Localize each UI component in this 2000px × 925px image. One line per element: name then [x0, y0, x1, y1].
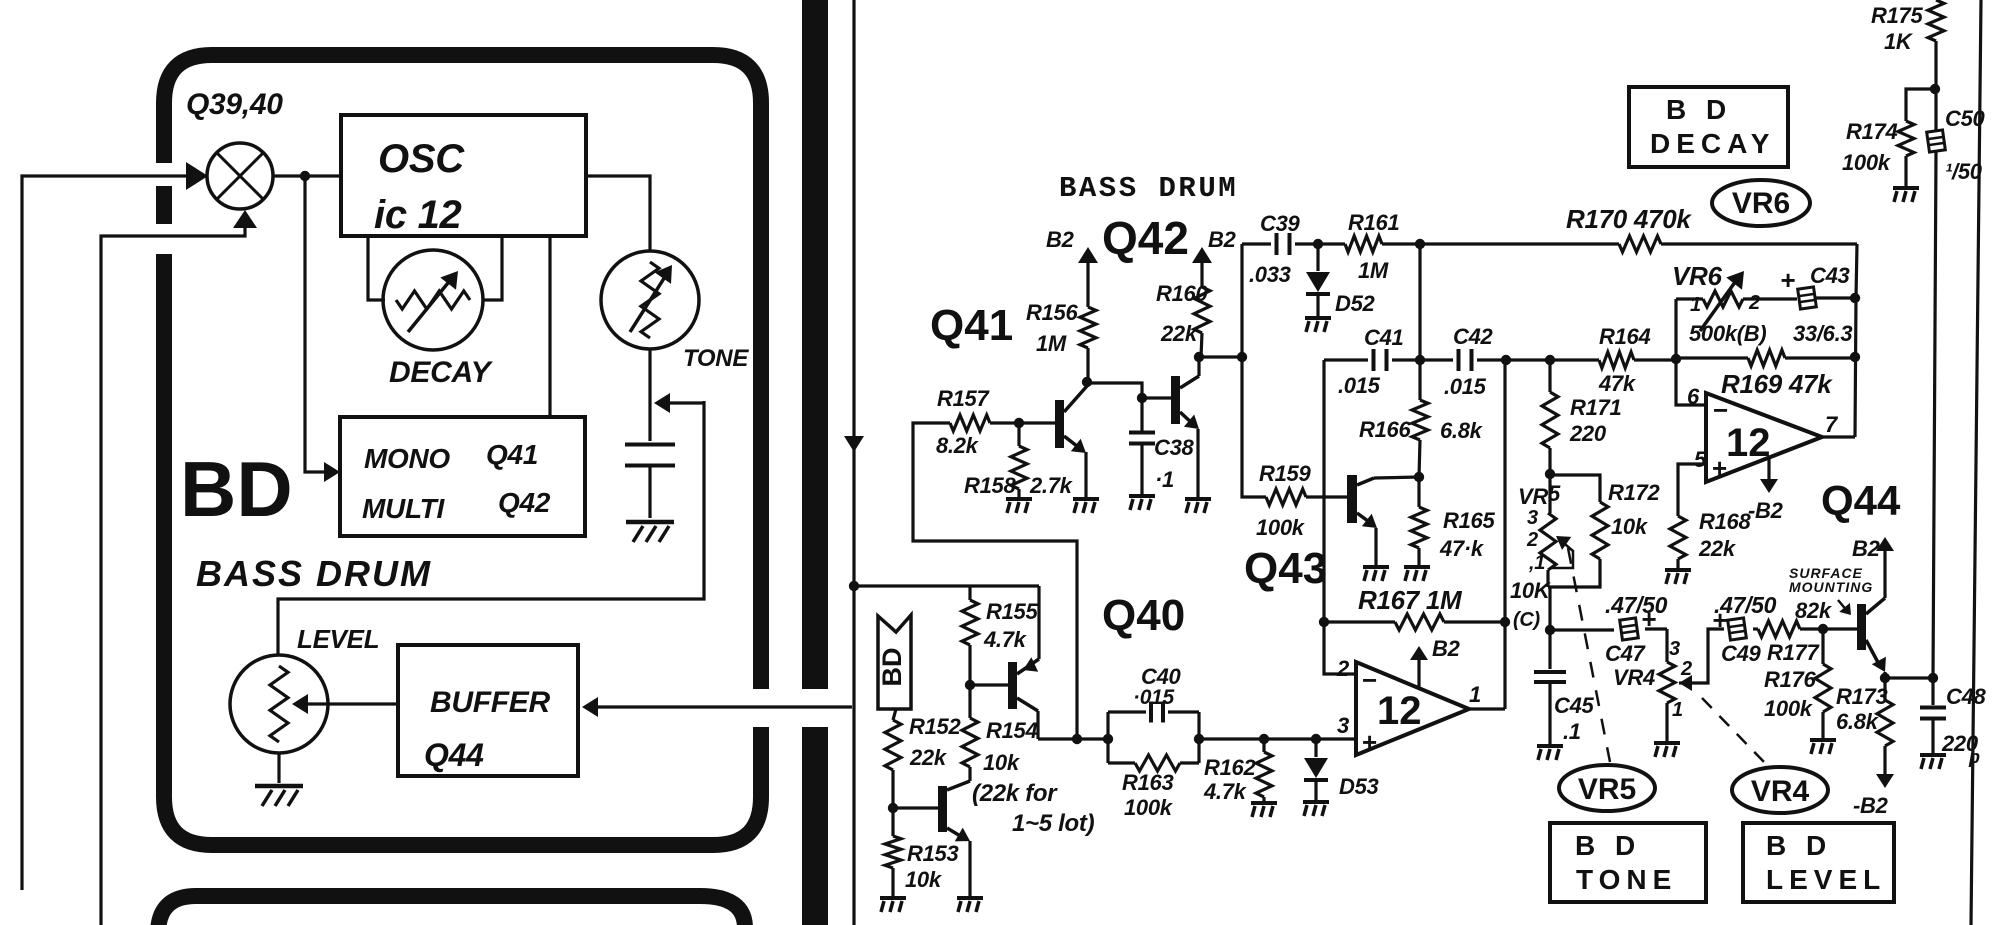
resistor R169 47k	[1676, 356, 1748, 359]
svg-text:C48: C48	[1946, 684, 1987, 709]
wire TONE bottom node	[648, 349, 651, 401]
svg-text:12: 12	[1377, 689, 1422, 733]
wire page right rail	[1971, 0, 1981, 925]
svg-text:TONE: TONE	[683, 345, 749, 372]
transistor Q44 (surface mounting)	[1857, 604, 1866, 650]
svg-text:C41: C41	[1364, 325, 1404, 350]
svg-text:R173: R173	[1836, 684, 1887, 709]
wire mixer to OSC	[273, 174, 341, 177]
wire emitter to C48	[1885, 676, 1933, 679]
svg-text:33/6.3: 33/6.3	[1793, 321, 1852, 346]
svg-text:.47/50: .47/50	[1605, 592, 1668, 618]
svg-text:B2: B2	[1432, 636, 1461, 661]
svg-text:1K: 1K	[1884, 29, 1914, 54]
wire buffer output	[586, 705, 852, 708]
capacitor C48 220p	[1931, 678, 1934, 705]
svg-text:100k: 100k	[1764, 696, 1814, 721]
wire y739 rail (Q40 out to op-amp +)	[1038, 737, 1108, 740]
svg-text:C49: C49	[1721, 641, 1762, 666]
svg-text:·1: ·1	[1155, 467, 1174, 492]
node rail/R166 column	[1415, 239, 1425, 249]
supply B2 op-amp 1	[1417, 650, 1420, 688]
svg-text:4.7k: 4.7k	[1203, 779, 1248, 804]
svg-text:R155: R155	[986, 599, 1038, 624]
svg-text:MULTI: MULTI	[362, 493, 445, 524]
leader dash VR5	[1568, 548, 1610, 762]
svg-text:Q39,40: Q39,40	[186, 88, 283, 121]
wire Q42 collector to C39 rail	[1199, 355, 1242, 358]
node R167 right	[1500, 617, 1510, 627]
svg-text:Q42: Q42	[498, 487, 551, 518]
svg-text:VR4: VR4	[1751, 775, 1810, 808]
svg-text:VR5: VR5	[1578, 773, 1636, 806]
svg-text:2: 2	[1748, 292, 1760, 314]
svg-text:1M: 1M	[1036, 331, 1067, 356]
capacitor C47 .47/50	[1620, 618, 1639, 640]
wire Q43 base / R159	[1242, 357, 1266, 497]
potentiometer VR6 500k(B)	[1674, 299, 1677, 359]
svg-text:.015: .015	[1444, 374, 1487, 399]
resistor R161 1M	[1345, 236, 1382, 252]
svg-text:Q43: Q43	[1244, 544, 1327, 593]
supply -B2 op-amp2	[1767, 458, 1770, 486]
ground under R153	[880, 896, 906, 900]
svg-text:R171: R171	[1570, 395, 1621, 420]
label box BD DECAY	[1629, 87, 1788, 167]
wire feedback column down	[1855, 244, 1857, 437]
leader dash VR4	[1702, 698, 1764, 762]
node op-amp2 feedback	[1850, 352, 1860, 362]
svg-text:B D: B D	[1666, 94, 1732, 125]
svg-text:1M: 1M	[1358, 258, 1389, 283]
resistor R156 1M	[1086, 250, 1089, 307]
svg-text:3: 3	[1337, 713, 1349, 738]
svg-text:Q44: Q44	[424, 737, 484, 773]
op-amp 12 (first)	[1356, 662, 1469, 755]
svg-text:‚1: ‚1	[1528, 552, 1545, 574]
svg-text:100k: 100k	[1256, 515, 1306, 540]
svg-text:VR6: VR6	[1672, 261, 1723, 291]
callout VR6	[1712, 180, 1810, 226]
node at OSC input	[300, 171, 310, 181]
svg-text:10k: 10k	[983, 750, 1021, 775]
svg-text:D53: D53	[1339, 774, 1379, 799]
svg-text:Q40: Q40	[1102, 591, 1185, 640]
resistor R165 47k	[1417, 477, 1420, 507]
svg-text:D52: D52	[1335, 291, 1376, 316]
resistor R155 4.7k	[968, 586, 971, 600]
diode D52	[1316, 244, 1319, 271]
svg-text:C42: C42	[1453, 324, 1494, 349]
svg-text:2: 2	[1336, 656, 1350, 681]
wire OSC to TONE pot	[586, 176, 650, 251]
resistor R164 47k	[1599, 352, 1634, 368]
svg-text:-B2: -B2	[1853, 793, 1889, 818]
svg-text:VR4: VR4	[1613, 665, 1655, 690]
node VR5 top	[1545, 469, 1555, 479]
svg-text:R164: R164	[1599, 324, 1650, 349]
svg-text:B D: B D	[1766, 830, 1832, 861]
ground under R162	[1251, 801, 1277, 805]
wire op-amp inverting input	[1324, 622, 1356, 674]
ground under C38	[1129, 494, 1155, 498]
potentiometer DECAY	[383, 250, 483, 350]
svg-text:B2: B2	[1852, 536, 1881, 561]
resistor R160 22k	[1200, 250, 1203, 287]
svg-text:220: 220	[1569, 421, 1607, 446]
wire op-amp2 inputs	[1676, 359, 1706, 405]
node Q44 emitter	[1880, 673, 1890, 683]
svg-text:DECAY: DECAY	[389, 356, 494, 389]
svg-text:BUFFER: BUFFER	[430, 686, 550, 719]
svg-text:1: 1	[1672, 699, 1683, 721]
svg-text:MOUNTING: MOUNTING	[1789, 579, 1873, 595]
wire top rail	[1242, 242, 1271, 245]
wire base Q40a	[970, 683, 1008, 686]
label box BD LEVEL	[1743, 823, 1894, 902]
svg-text:5: 5	[1694, 447, 1707, 472]
net flag BD (trigger input)	[878, 615, 911, 709]
svg-text:1: 1	[1469, 682, 1481, 707]
potentiometer TONE	[601, 251, 699, 349]
supply B2 Q44 collector	[1883, 542, 1886, 598]
svg-text:12: 12	[1726, 421, 1771, 465]
svg-text:DECAY: DECAY	[1650, 128, 1775, 159]
svg-text:6.8k: 6.8k	[1440, 418, 1484, 443]
capacitor C38 .1	[1140, 398, 1143, 431]
svg-text:·015: ·015	[1133, 686, 1174, 709]
transistor Q41	[1055, 400, 1064, 448]
svg-text:4.7k: 4.7k	[983, 627, 1028, 652]
ground under Q41 emitter	[1073, 497, 1099, 501]
ground under VR4	[1654, 741, 1680, 745]
wire op-amp1 output	[1469, 707, 1505, 710]
svg-text:R156: R156	[1026, 300, 1078, 325]
svg-text:MONO: MONO	[364, 443, 450, 474]
svg-text:1: 1	[1690, 294, 1701, 316]
block BUFFER Q44	[398, 645, 578, 776]
svg-text:R152: R152	[909, 714, 961, 739]
svg-text:C45: C45	[1554, 693, 1595, 718]
wire rail to Q40 stage	[854, 584, 1039, 587]
svg-text:VR6: VR6	[1732, 187, 1790, 220]
svg-text:2: 2	[1526, 529, 1538, 551]
svg-text:1~5 lot): 1~5 lot)	[1012, 810, 1095, 837]
ground under D53	[1303, 800, 1329, 804]
svg-text:BD: BD	[180, 445, 293, 533]
parallel block C40/R163	[1106, 712, 1109, 763]
node R155/R154/base	[965, 680, 975, 690]
wire C41/C42 rail	[1324, 358, 1368, 361]
ground under Q40b emitter	[957, 896, 983, 900]
svg-text:Q44: Q44	[1821, 477, 1901, 524]
svg-text:22k: 22k	[1160, 321, 1199, 346]
potentiometer LEVEL	[230, 655, 328, 753]
capacitor C41 .015	[1372, 349, 1376, 371]
svg-text:B D: B D	[1575, 830, 1641, 861]
ground under R174	[1893, 186, 1919, 190]
svg-text:100k: 100k	[1842, 150, 1892, 175]
svg-text:R167 1M: R167 1M	[1358, 585, 1463, 615]
svg-text:TONE: TONE	[1576, 864, 1677, 895]
wire OSC to DECAY pot (left leg)	[368, 236, 385, 300]
wire feedback into TONE node	[278, 401, 704, 655]
resistor R167 1M	[1324, 620, 1395, 623]
wire main input rail	[852, 0, 855, 925]
svg-text:8.2k: 8.2k	[936, 433, 980, 458]
svg-text:Q41: Q41	[930, 301, 1013, 350]
resistor R154 10k	[968, 685, 971, 718]
resistor R162 4.7k	[1259, 734, 1269, 744]
wire node to C47	[1550, 628, 1614, 631]
resistor R176 100k	[1821, 629, 1824, 664]
svg-text:R177: R177	[1767, 640, 1820, 665]
capacitor C45 .1	[1548, 630, 1551, 669]
svg-text:OSC: OSC	[378, 137, 465, 181]
ground under R165	[1404, 565, 1430, 569]
resistor R168 22k	[1670, 516, 1686, 559]
svg-text:B2: B2	[1208, 227, 1237, 252]
wire block to op-amp	[1199, 737, 1356, 740]
label box BD TONE	[1550, 823, 1706, 902]
block OSC IC12	[341, 115, 586, 236]
capacitor C39 .033	[1275, 233, 1279, 255]
callout VR5	[1559, 765, 1655, 811]
svg-text:22k: 22k	[1698, 536, 1737, 561]
svg-text:BASS DRUM: BASS DRUM	[196, 553, 432, 594]
ground under LEVEL	[277, 753, 280, 783]
potentiometer VR5 10K(C)	[1548, 475, 1551, 513]
svg-text:R161: R161	[1348, 210, 1399, 235]
potentiometer VR4	[1665, 629, 1668, 662]
wire OSC to MONO/MULTI	[548, 236, 551, 417]
callout VR4	[1732, 767, 1828, 813]
svg-text:10k: 10k	[1611, 514, 1649, 539]
svg-text:100k: 100k	[1124, 795, 1174, 820]
svg-text:R154: R154	[986, 718, 1037, 743]
svg-text:22k: 22k	[909, 745, 948, 770]
wire node down to MONO/MULTI box	[305, 176, 332, 472]
ground under R158	[1006, 497, 1032, 501]
node BD tone (C)	[1548, 587, 1551, 630]
svg-text:BASS DRUM: BASS DRUM	[1059, 172, 1238, 205]
svg-text:Q42: Q42	[1102, 212, 1189, 264]
bus bar (thick vertical)	[802, 0, 828, 689]
svg-text:C47: C47	[1605, 641, 1647, 666]
svg-text:ic 12: ic 12	[374, 193, 462, 237]
ground under R168	[1665, 568, 1691, 572]
node main rail	[849, 581, 859, 591]
svg-text:R165: R165	[1443, 508, 1495, 533]
ground under Q43 emitter	[1363, 565, 1389, 569]
wire buffer to LEVEL wiper	[304, 702, 398, 705]
svg-text:500k(B): 500k(B)	[1689, 321, 1766, 346]
capacitor C50 1/50	[1927, 130, 1946, 152]
svg-text:R170 470k: R170 470k	[1566, 204, 1692, 234]
diode D53	[1311, 734, 1321, 744]
ground under D52	[1305, 316, 1331, 320]
node R176/base Q44	[1818, 624, 1828, 634]
svg-text:6.8k: 6.8k	[1836, 709, 1880, 734]
svg-text:R160: R160	[1156, 281, 1208, 306]
resistor R153 10k	[891, 808, 894, 836]
ground under C48	[1920, 753, 1946, 757]
svg-text:R169 47k: R169 47k	[1721, 369, 1833, 399]
svg-text:VR: VR	[1518, 484, 1548, 509]
resistor R152 22k	[893, 709, 896, 720]
wire input B (to mixer bottom)	[101, 218, 245, 925]
supply -B2 under R173	[1876, 774, 1894, 788]
svg-text:+: +	[1362, 727, 1377, 757]
module frame BD section (thick rounded border)	[164, 55, 761, 845]
svg-text:R168: R168	[1699, 509, 1751, 534]
svg-text:R174: R174	[1846, 119, 1897, 144]
svg-text:−: −	[1362, 665, 1377, 695]
svg-text:3: 3	[1527, 507, 1538, 529]
node R152/R153	[888, 803, 898, 813]
capacitor at TONE node	[648, 401, 651, 441]
transistor Q43	[1347, 475, 1357, 523]
ground under R176	[1810, 738, 1836, 742]
svg-text:R158: R158	[964, 473, 1016, 498]
svg-text:C38: C38	[1154, 435, 1195, 460]
svg-text:10k: 10k	[905, 867, 943, 892]
node R167 left	[1319, 617, 1329, 627]
mixer Q39,40 (ring modulator symbol)	[207, 143, 273, 209]
wire C41 column down to R167	[1322, 360, 1325, 622]
resistor R171 220	[1548, 360, 1551, 392]
svg-text:+: +	[1712, 453, 1727, 483]
svg-text:R157: R157	[937, 386, 990, 411]
svg-text:C39: C39	[1260, 211, 1301, 236]
module 2 frame (next section, top edge)	[158, 896, 745, 925]
resistor R170 470k	[1420, 242, 1619, 245]
node R157/R158/base Q41	[1014, 418, 1024, 428]
svg-text:10K: 10K	[1510, 578, 1552, 603]
svg-text:.47/50: .47/50	[1714, 592, 1777, 618]
svg-text:C43: C43	[1810, 263, 1850, 288]
column R166 / Q43 collector	[1418, 244, 1421, 400]
svg-text:.1: .1	[1563, 719, 1581, 744]
resistor R177 82k	[1758, 621, 1800, 637]
ground under capacitor	[626, 520, 674, 525]
wire op-amp2 output	[1822, 435, 1855, 438]
svg-text:.015: .015	[1338, 373, 1381, 398]
svg-text:¹/50: ¹/50	[1945, 159, 1983, 184]
svg-text:R166: R166	[1359, 417, 1411, 442]
resistor R172 10k	[1550, 475, 1600, 502]
resistor R173 6.8k	[1883, 672, 1886, 700]
node D52	[1313, 239, 1323, 249]
svg-text:2.7k: 2.7k	[1029, 473, 1074, 498]
svg-text:R159: R159	[1259, 461, 1311, 486]
svg-text:R172: R172	[1608, 480, 1660, 505]
svg-text:R153: R153	[907, 841, 958, 866]
wire VR4 wiper to C49	[1679, 675, 1692, 691]
svg-text:R175: R175	[1871, 3, 1923, 28]
node Q42 collector	[1194, 352, 1204, 362]
svg-text:5: 5	[1548, 481, 1561, 506]
svg-text:47·k: 47·k	[1439, 536, 1485, 561]
ground under C45	[1537, 744, 1563, 748]
svg-text:.033: .033	[1249, 262, 1291, 287]
svg-text:R163: R163	[1122, 770, 1173, 795]
svg-text:+: +	[1780, 265, 1795, 295]
svg-text:47k: 47k	[1598, 371, 1637, 396]
node R174	[1930, 84, 1940, 94]
resistor R174 100k	[1906, 89, 1935, 121]
svg-text:(C): (C)	[1513, 609, 1541, 631]
ground under Q42 emitter	[1185, 497, 1211, 501]
svg-text:R176: R176	[1764, 667, 1816, 692]
svg-text:(22k for: (22k for	[972, 780, 1058, 807]
capacitor C42 .015	[1457, 349, 1461, 371]
transistor Q40a (upper)	[1008, 662, 1017, 709]
svg-text:B2: B2	[1046, 227, 1075, 252]
wire OSC to DECAY pot (right leg)	[482, 236, 502, 300]
svg-text:LEVEL: LEVEL	[297, 624, 379, 654]
svg-text:7: 7	[1825, 412, 1839, 437]
svg-text:Q41: Q41	[486, 439, 538, 470]
wire input A	[22, 176, 200, 890]
transistor Q42	[1171, 376, 1180, 424]
op-amp 12 (second)	[1706, 393, 1822, 482]
resistor R157 8.2k	[913, 423, 1077, 739]
node Q41 collector	[1082, 377, 1092, 387]
resistor R158 2.7k	[1017, 423, 1020, 446]
block MONO Q41 / MULTI Q42	[340, 417, 585, 536]
wire C50 column (to top)	[1933, 152, 1936, 678]
wire Q41 collector to Q42 base	[1087, 383, 1142, 398]
resistor R175 1K	[1934, 89, 1937, 130]
svg-text:R162: R162	[1204, 755, 1256, 780]
svg-text:BD: BD	[877, 648, 907, 687]
svg-text:3: 3	[1669, 638, 1680, 660]
svg-text:-B2: -B2	[1748, 498, 1784, 523]
svg-text:LEVEL: LEVEL	[1766, 864, 1886, 895]
svg-text:82k: 82k	[1795, 598, 1833, 623]
transistor Q40b (lower)	[938, 786, 947, 832]
